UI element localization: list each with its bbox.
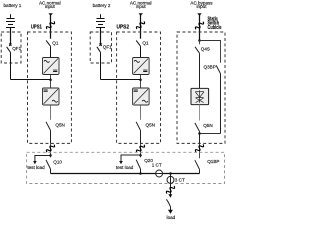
current transformer 3 CT <box>167 176 174 183</box>
UPS1 enclosure dashed box <box>28 32 72 143</box>
load arrow <box>168 210 173 214</box>
wire UPS1 output to switchboard <box>50 143 52 155</box>
wire Q1 to rectifier (UPS2) <box>140 46 142 57</box>
AC bypass input arrow <box>197 13 201 16</box>
wire QF1 to corner (battery 2) <box>100 52 102 79</box>
AC input arrow (UPS2) <box>139 13 143 16</box>
wire Q1BP to bus <box>199 169 201 173</box>
svg-text:input: input <box>45 4 56 9</box>
wire battery2 down to QF1 <box>100 28 102 45</box>
battery 2 enclosure dashed box <box>90 32 111 63</box>
svg-text:load: load <box>167 215 176 220</box>
node: DC link junction (UPS1) <box>49 78 52 81</box>
wire AC input to Q1 (UPS1) <box>50 15 52 39</box>
svg-text:Q5N: Q5N <box>55 123 64 128</box>
svg-text:Q10: Q10 <box>53 160 62 165</box>
switch Q3BP (maintenance bypass) <box>216 65 220 73</box>
svg-text:test load: test load <box>116 165 134 170</box>
node: UPS2 test load tap <box>139 154 142 157</box>
cable mark (UPS1 output) <box>46 143 56 153</box>
battery B2 symbol <box>96 14 105 27</box>
wire node to Q4S <box>199 41 201 45</box>
svg-text:Q5N: Q5N <box>203 123 212 128</box>
wire SSC output to switchboard <box>199 143 201 158</box>
svg-text:Q3BP: Q3BP <box>204 64 216 69</box>
wire Q5N to SSC outlet <box>199 132 201 144</box>
wire Q5N to UPS1 outlet <box>50 130 52 143</box>
inverter (UPS2) <box>133 88 150 105</box>
svg-text:battery 2: battery 2 <box>93 3 111 8</box>
output bus wire <box>51 173 200 175</box>
UPS2 enclosure dashed box <box>117 32 161 143</box>
svg-text:Q1: Q1 <box>52 41 59 46</box>
svg-text:QF1: QF1 <box>12 46 21 51</box>
rectifier (UPS1) <box>43 58 60 75</box>
svg-text:Q5N: Q5N <box>146 123 155 128</box>
wire inverter to Q5N (UPS1) <box>50 105 52 120</box>
cable mark (load feeder) <box>166 185 176 195</box>
wire QF1 to corner <box>10 52 12 79</box>
wire static switch to Q5N (SSC) <box>199 105 201 121</box>
svg-text:Cubicle: Cubicle <box>208 25 222 31</box>
svg-text:battery 1: battery 1 <box>3 3 21 8</box>
cable mark (bypass input) <box>195 20 205 30</box>
switch Q10 <box>46 155 51 169</box>
inverter (UPS1) <box>43 88 60 105</box>
circuit breaker QF1 (battery 2) <box>97 44 102 53</box>
wire bypass branch to Q3BP <box>200 41 221 63</box>
Static Switch Cubicle enclosure dashed box <box>177 32 225 143</box>
switch Q5N (UPS1) <box>46 122 51 131</box>
node: UPS1 test load tap <box>49 154 52 157</box>
wire Q3BP rejoin <box>200 133 221 135</box>
svg-text:Q1BP: Q1BP <box>207 159 219 164</box>
wire Q5N to UPS2 outlet <box>140 130 142 143</box>
node: bypass rejoin junction <box>198 132 201 135</box>
svg-text:Q4S: Q4S <box>201 46 210 51</box>
cable mark (UPS2 output) <box>136 144 146 154</box>
wire to test load arrow (UPS2) <box>121 155 141 161</box>
wire battery1 to DC link node <box>11 79 51 81</box>
wire rectifier to DC node (UPS2) <box>140 75 142 89</box>
wire battery2 to DC link node <box>101 79 141 81</box>
node: Q20 bus junction <box>139 172 142 175</box>
circuit breaker QF1 (battery 1) <box>7 44 12 53</box>
battery 1 enclosure dashed box <box>1 32 21 63</box>
svg-text:1 CT: 1 CT <box>152 163 162 168</box>
wire Q4S to static switch <box>199 53 201 88</box>
test load arrow (UPS2) <box>119 161 123 164</box>
switch Q1 (UPS2) <box>136 40 140 46</box>
switch Q5N (SSC) <box>195 123 200 132</box>
rectifier (UPS2) <box>133 58 150 75</box>
node: load tap junction <box>169 172 172 175</box>
cable mark (UPS2 input) <box>136 20 146 30</box>
svg-text:3 CT: 3 CT <box>175 178 185 183</box>
output switchboard dashed box <box>27 152 225 183</box>
wire Q20 to bus <box>140 169 142 174</box>
switch Q20 <box>136 155 140 169</box>
switch Q1BP <box>195 160 200 169</box>
wire AC bypass input <box>199 15 201 40</box>
svg-text:input: input <box>136 4 147 9</box>
wire UPS2 output to switchboard <box>140 143 142 154</box>
wire Q1 to rectifier (UPS1) <box>50 46 52 57</box>
wire Q10 to bus <box>50 169 52 174</box>
svg-text:UPS1: UPS1 <box>31 25 42 31</box>
svg-text:input: input <box>197 4 208 9</box>
wire inverter to Q5N (UPS2) <box>140 105 142 120</box>
static switch (thyristor module) <box>191 88 209 104</box>
test load arrow (UPS1) <box>33 161 37 164</box>
wire rectifier to DC node (UPS1) <box>50 75 52 89</box>
svg-text:QF1: QF1 <box>103 44 112 49</box>
switch Q5N (UPS2) <box>136 122 140 131</box>
wire to load arrow <box>170 207 172 210</box>
wire AC input to Q1 (UPS2) <box>140 15 142 39</box>
svg-text:test load: test load <box>27 165 45 170</box>
load isolator blade <box>166 199 170 207</box>
switch Q4S <box>195 47 200 53</box>
wire Q3BP down to rejoin <box>220 74 222 134</box>
arrowhead to distribution <box>168 194 172 197</box>
switch Q1 (UPS1) <box>46 40 50 46</box>
svg-text:Q1: Q1 <box>142 41 149 46</box>
wire battery1 down to QF1 <box>10 28 12 45</box>
AC input arrow (UPS1) <box>49 13 53 16</box>
cable mark (SSC output) <box>195 143 205 153</box>
node: bypass branch junction <box>198 39 201 42</box>
node: DC link junction (UPS2) <box>139 78 142 81</box>
battery B1 symbol <box>6 14 15 27</box>
wire load drop <box>170 174 172 195</box>
wire to test load arrow (UPS1) <box>35 156 51 162</box>
current transformer 1 CT <box>156 170 163 177</box>
svg-text:UPS2: UPS2 <box>117 25 130 31</box>
cable mark (UPS1 input) <box>46 20 56 30</box>
